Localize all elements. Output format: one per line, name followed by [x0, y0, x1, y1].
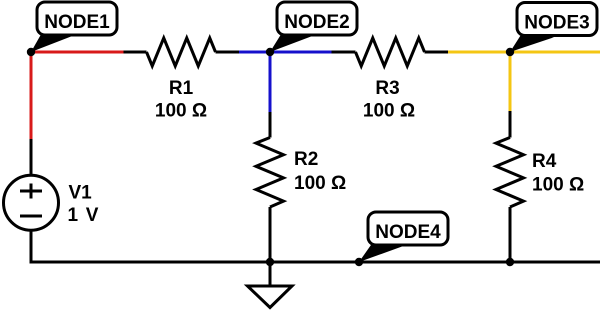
svg-text:V1: V1 — [69, 183, 93, 204]
svg-text:R3: R3 — [375, 78, 399, 99]
svg-text:1 V: 1 V — [68, 205, 100, 226]
svg-text:R2: R2 — [294, 149, 318, 170]
svg-text:NODE1: NODE1 — [44, 12, 110, 33]
svg-text:100 Ω: 100 Ω — [294, 173, 346, 194]
svg-text:100 Ω: 100 Ω — [532, 175, 584, 196]
svg-text:R1: R1 — [169, 78, 194, 99]
svg-text:NODE3: NODE3 — [524, 13, 589, 34]
svg-text:NODE2: NODE2 — [284, 12, 349, 33]
svg-text:NODE4: NODE4 — [375, 222, 441, 243]
svg-text:R4: R4 — [532, 151, 557, 172]
svg-text:100 Ω: 100 Ω — [155, 101, 207, 122]
svg-text:100 Ω: 100 Ω — [363, 101, 415, 122]
